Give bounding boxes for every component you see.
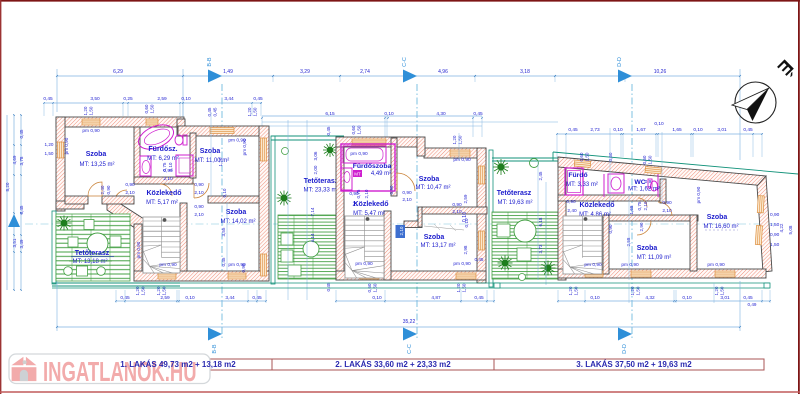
svg-text:4,87: 4,87 bbox=[431, 295, 441, 301]
page frame top border bbox=[0, 0, 800, 2]
svg-text:2,58: 2,58 bbox=[626, 237, 631, 246]
svg-text:Tetőterasz: Tetőterasz bbox=[497, 190, 532, 197]
svg-text:1,50: 1,50 bbox=[648, 155, 653, 164]
svg-text:pm 0,90: pm 0,90 bbox=[64, 137, 69, 154]
unit 1 toilet bbox=[183, 135, 187, 145]
svg-text:4,22: 4,22 bbox=[779, 223, 784, 232]
left elevation triangle bbox=[8, 214, 20, 227]
svg-text:MT: 6,29 m²: MT: 6,29 m² bbox=[147, 156, 179, 162]
svg-text:3,44: 3,44 bbox=[225, 295, 235, 301]
svg-text:4,96: 4,96 bbox=[438, 69, 448, 75]
svg-text:0,10: 0,10 bbox=[682, 295, 692, 301]
svg-text:Szoba: Szoba bbox=[200, 148, 221, 155]
svg-text:1,20: 1,20 bbox=[45, 142, 54, 147]
svg-text:3,51: 3,51 bbox=[12, 238, 17, 247]
svg-text:3,01: 3,01 bbox=[720, 295, 730, 301]
svg-text:1,20: 1,20 bbox=[630, 286, 635, 295]
svg-text:D-D: D-D bbox=[617, 57, 623, 67]
unit 3 staircase bbox=[563, 216, 602, 274]
svg-text:MT: 11,09 m²: MT: 11,09 m² bbox=[637, 255, 672, 261]
page frame left border bbox=[0, 0, 2, 394]
svg-text:0,90: 0,90 bbox=[349, 191, 359, 197]
svg-text:1,50: 1,50 bbox=[357, 125, 362, 134]
unit 2 right wall bbox=[477, 148, 486, 283]
unit 1 shower bbox=[176, 155, 193, 176]
unit 3 wc basin oval bbox=[608, 174, 624, 193]
watermark house icon bbox=[12, 357, 37, 381]
unit 3 terrace deck bbox=[492, 212, 558, 279]
unit 3 slanted top wall bbox=[558, 157, 766, 186]
unit 1 door arc bath bbox=[160, 184, 172, 196]
svg-text:1. LAKÁS 49,73 m2 + 13,18 m2: 1. LAKÁS 49,73 m2 + 13,18 m2 bbox=[120, 360, 236, 369]
bottom dimension row unit 1 bbox=[115, 290, 267, 303]
svg-text:3,44: 3,44 bbox=[224, 96, 234, 102]
unit 3 windows right wall bbox=[755, 196, 764, 245]
svg-text:2,10: 2,10 bbox=[402, 197, 412, 203]
svg-text:2,40: 2,40 bbox=[100, 185, 105, 194]
unit 3 wc room magenta bbox=[603, 174, 605, 197]
svg-text:4,14: 4,14 bbox=[310, 233, 315, 242]
unit 3 door arc bbox=[658, 202, 672, 216]
section marker C-C top bbox=[402, 57, 417, 338]
svg-text:0,10: 0,10 bbox=[590, 295, 600, 301]
left dimension chains bbox=[5, 114, 24, 291]
unit 1 washbasin bbox=[140, 156, 151, 176]
svg-text:0,90: 0,90 bbox=[241, 263, 246, 272]
unit 2 wall jog lower bbox=[404, 221, 422, 228]
svg-text:7,14: 7,14 bbox=[310, 207, 315, 216]
svg-text:0,90: 0,90 bbox=[194, 204, 204, 210]
svg-text:5,08: 5,08 bbox=[788, 225, 793, 234]
unit 1 window left wall bbox=[58, 142, 64, 158]
svg-text:2,59: 2,59 bbox=[463, 194, 468, 203]
svg-text:3,06: 3,06 bbox=[313, 151, 318, 160]
svg-text:pm 0,90: pm 0,90 bbox=[621, 262, 639, 268]
unit 3 interior wall above szoba bbox=[603, 215, 698, 221]
unit 3 interior wall under bath bbox=[558, 195, 666, 201]
svg-text:1,20: 1,20 bbox=[714, 286, 719, 295]
unit 1 terrace border bbox=[52, 211, 56, 284]
svg-text:MT: 13,18 m²: MT: 13,18 m² bbox=[72, 259, 107, 265]
unit 1 terrace plant bbox=[57, 216, 72, 231]
svg-text:pm 0,90: pm 0,90 bbox=[355, 261, 373, 267]
svg-text:2,73: 2,73 bbox=[590, 127, 600, 133]
unit 3 windows slanted wall bbox=[574, 160, 661, 174]
svg-text:2,59: 2,59 bbox=[157, 96, 167, 102]
svg-text:1,50: 1,50 bbox=[636, 286, 641, 295]
svg-text:4,32: 4,32 bbox=[645, 295, 655, 301]
svg-text:35,22: 35,22 bbox=[403, 319, 416, 325]
unit 2 window right lower bbox=[479, 231, 485, 250]
unit 1 interior dims bbox=[226, 203, 228, 271]
svg-text:1,50: 1,50 bbox=[162, 286, 167, 295]
svg-text:1,50: 1,50 bbox=[458, 135, 463, 144]
svg-text:0,90: 0,90 bbox=[566, 199, 576, 205]
svg-text:0,45: 0,45 bbox=[326, 126, 331, 135]
bottom garden double line bbox=[52, 282, 770, 284]
right dimension chain bbox=[766, 204, 793, 259]
svg-text:4,30: 4,30 bbox=[436, 111, 446, 117]
svg-text:2,00: 2,00 bbox=[313, 165, 318, 174]
svg-text:0,60: 0,60 bbox=[351, 125, 356, 134]
unit 1 window right wall lower bbox=[261, 254, 267, 276]
svg-text:Szoba: Szoba bbox=[419, 176, 440, 183]
svg-text:0,45: 0,45 bbox=[475, 257, 484, 262]
unit 1 window bottom 1 bbox=[158, 273, 176, 279]
svg-text:0,90: 0,90 bbox=[106, 185, 111, 194]
svg-text:Tetőterasz: Tetőterasz bbox=[75, 250, 110, 257]
svg-text:0,49: 0,49 bbox=[748, 302, 757, 307]
svg-text:3,55: 3,55 bbox=[221, 227, 226, 236]
unit 1 stair-side wall bbox=[134, 224, 142, 281]
svg-text:2,10: 2,10 bbox=[662, 208, 672, 214]
svg-text:3,78: 3,78 bbox=[19, 156, 24, 165]
svg-text:pm 0,90: pm 0,90 bbox=[159, 262, 177, 268]
svg-text:1,49: 1,49 bbox=[223, 69, 233, 75]
svg-text:Fürdőszoba: Fürdőszoba bbox=[353, 163, 392, 170]
unit 1 angled wall bbox=[107, 201, 144, 228]
svg-text:Szoba: Szoba bbox=[637, 245, 658, 252]
unit 1 bathtub bbox=[135, 120, 177, 154]
unit 2 door arc bbox=[397, 173, 415, 191]
svg-text:0,75: 0,75 bbox=[637, 201, 642, 210]
svg-text:C-C: C-C bbox=[407, 344, 413, 354]
garden fence line along slanted wall bbox=[553, 152, 798, 174]
unit 1 terrace deck bbox=[56, 214, 130, 281]
svg-text:0,90: 0,90 bbox=[194, 182, 204, 188]
svg-text:2,40: 2,40 bbox=[567, 208, 577, 214]
svg-text:6,18: 6,18 bbox=[538, 217, 543, 226]
unit 1 right wall bbox=[259, 126, 269, 281]
unit 1 bathroom bottom wall bbox=[134, 177, 193, 184]
unit 1 wall stub between stairs and room bbox=[180, 203, 187, 271]
svg-text:1,20: 1,20 bbox=[218, 157, 223, 166]
unit 2 window bottom 2 bbox=[456, 273, 476, 279]
svg-text:0,90: 0,90 bbox=[389, 185, 394, 194]
unit 2 wall stairs/room bbox=[384, 211, 391, 280]
svg-text:1,20: 1,20 bbox=[135, 286, 140, 295]
unit 1 door arc room1 bbox=[88, 182, 102, 196]
svg-text:0,45: 0,45 bbox=[743, 127, 753, 133]
unit 1 window top-mid bbox=[146, 119, 158, 125]
svg-text:Szoba: Szoba bbox=[86, 151, 107, 158]
svg-text:Tetőterasz: Tetőterasz bbox=[304, 178, 339, 185]
svg-text:pm 0,90: pm 0,90 bbox=[350, 151, 368, 157]
svg-text:3,49: 3,49 bbox=[19, 239, 24, 248]
svg-text:0,10: 0,10 bbox=[462, 212, 468, 222]
svg-text:Szoba: Szoba bbox=[226, 209, 247, 216]
svg-text:0,10: 0,10 bbox=[384, 111, 394, 117]
svg-text:1,50: 1,50 bbox=[150, 104, 155, 113]
svg-text:1,20: 1,20 bbox=[83, 106, 88, 115]
unit 2 terrace border top bbox=[271, 135, 344, 137]
svg-text:3,18: 3,18 bbox=[520, 69, 530, 75]
svg-text:MT: 10,47 m²: MT: 10,47 m² bbox=[415, 185, 450, 191]
svg-text:2,45: 2,45 bbox=[538, 171, 543, 180]
unit 3 bottom wall bbox=[558, 269, 766, 278]
svg-text:0,10: 0,10 bbox=[654, 121, 664, 127]
svg-text:0,90: 0,90 bbox=[770, 212, 780, 218]
compass north arrow bbox=[732, 82, 776, 123]
svg-text:pm 0,90: pm 0,90 bbox=[82, 128, 100, 134]
unit 2 washbasin bbox=[341, 168, 352, 190]
unit 2 terrace plants bbox=[323, 143, 337, 157]
svg-text:0,45: 0,45 bbox=[474, 295, 484, 301]
dimension row above unit 2 bbox=[261, 111, 558, 137]
overall bottom dimension bbox=[56, 281, 741, 331]
svg-text:Közlekedő: Közlekedő bbox=[579, 202, 614, 209]
svg-text:0,90: 0,90 bbox=[402, 190, 412, 196]
unit 1 outer wall top-right bbox=[177, 119, 185, 136]
svg-text:0,45: 0,45 bbox=[568, 127, 578, 133]
unit 2 bottom wall bbox=[336, 271, 486, 280]
svg-text:2,10: 2,10 bbox=[452, 209, 462, 215]
section marker B-B top bbox=[207, 57, 222, 338]
svg-text:1,20: 1,20 bbox=[156, 286, 161, 295]
svg-text:0,60: 0,60 bbox=[608, 152, 613, 161]
svg-text:D-D: D-D bbox=[622, 344, 628, 354]
title bar bbox=[106, 359, 764, 370]
svg-text:pm 0,90: pm 0,90 bbox=[584, 262, 602, 268]
svg-text:3,73: 3,73 bbox=[538, 244, 543, 253]
svg-text:2,10: 2,10 bbox=[163, 176, 173, 182]
unit 2 window right upper bbox=[479, 166, 485, 184]
unit 1 window bottom 2 bbox=[228, 273, 246, 279]
unit 1 top wall step bbox=[178, 126, 265, 136]
svg-text:1,50: 1,50 bbox=[45, 151, 54, 156]
unit 2 terrace deck bbox=[278, 215, 336, 279]
unit 2 terrace furniture bbox=[281, 233, 293, 245]
svg-text:3,01: 3,01 bbox=[717, 127, 727, 133]
svg-text:0,45: 0,45 bbox=[743, 295, 753, 301]
svg-text:0,25: 0,25 bbox=[123, 96, 133, 102]
unit 1 window top-right bbox=[210, 128, 234, 134]
section marker D-D top bbox=[617, 57, 632, 338]
svg-text:1,68: 1,68 bbox=[629, 205, 634, 214]
svg-text:pm 0,90: pm 0,90 bbox=[136, 241, 141, 258]
svg-text:6,15: 6,15 bbox=[325, 111, 335, 117]
svg-text:B-B: B-B bbox=[212, 344, 218, 354]
unit 2 wall between szoba rooms bbox=[421, 207, 487, 214]
unit 2 staircase bbox=[345, 216, 384, 278]
svg-text:MT: 1,62 m²: MT: 1,62 m² bbox=[628, 187, 660, 193]
svg-text:pm 0,90: pm 0,90 bbox=[453, 157, 471, 163]
svg-text:0,9: 0,9 bbox=[645, 179, 652, 185]
svg-text:2,10: 2,10 bbox=[194, 212, 204, 218]
svg-text:2,10: 2,10 bbox=[194, 190, 204, 196]
svg-text:MT: MT bbox=[354, 172, 361, 177]
svg-text:3,50: 3,50 bbox=[90, 96, 100, 102]
svg-text:0,10: 0,10 bbox=[222, 188, 227, 197]
unit 1 interior wall under room 1 bbox=[65, 196, 88, 204]
unit 2 top wall left bbox=[336, 137, 420, 147]
svg-text:pm 0,90: pm 0,90 bbox=[707, 262, 725, 268]
svg-text:2,98: 2,98 bbox=[463, 245, 468, 254]
svg-text:6,29: 6,29 bbox=[113, 69, 123, 75]
unit 2 window top-right bbox=[450, 150, 470, 156]
svg-text:1,50: 1,50 bbox=[585, 152, 590, 161]
svg-text:4,69: 4,69 bbox=[12, 155, 17, 164]
dimension row above unit 1 bbox=[43, 96, 263, 116]
watermark badge bbox=[9, 354, 210, 384]
unit 1 bottom wall bbox=[134, 271, 269, 281]
top main dimension chain bbox=[56, 69, 741, 160]
unit 3 washbasin bbox=[568, 171, 581, 193]
unit 1 interior wall between rooms bbox=[208, 196, 259, 203]
svg-text:C-C: C-C bbox=[402, 57, 408, 67]
svg-text:Fürdő: Fürdő bbox=[568, 172, 587, 179]
svg-text:pm 0,90: pm 0,90 bbox=[242, 138, 247, 155]
svg-text:2,10: 2,10 bbox=[643, 201, 648, 210]
svg-text:1,20: 1,20 bbox=[452, 135, 457, 144]
svg-text:Szoba: Szoba bbox=[424, 234, 445, 241]
unit 3 terrace plants bbox=[493, 159, 509, 175]
svg-text:0,45: 0,45 bbox=[253, 96, 263, 102]
svg-text:Közlekedő: Közlekedő bbox=[146, 190, 181, 197]
svg-text:2.: 2. bbox=[352, 202, 357, 208]
unit 3 terrace border top bbox=[492, 157, 558, 159]
svg-text:3,29: 3,29 bbox=[300, 69, 310, 75]
svg-text:4,49 m²: 4,49 m² bbox=[371, 171, 391, 177]
unit 2 terrace border left bbox=[271, 136, 275, 284]
unit 1 terrace table bbox=[87, 233, 108, 254]
page frame right border bbox=[798, 0, 800, 394]
dimension row above unit 3 bbox=[556, 121, 763, 157]
unit 2 bathroom walls magenta bbox=[341, 144, 395, 191]
svg-text:2,90: 2,90 bbox=[639, 222, 644, 231]
unit 2 wall bath/room bbox=[391, 138, 397, 196]
svg-text:Közlekedő: Közlekedő bbox=[353, 201, 388, 208]
unit 2 window top bbox=[352, 139, 386, 145]
page frame bottom border bbox=[0, 391, 800, 393]
svg-text:2,10: 2,10 bbox=[125, 190, 135, 196]
unit 1 window top-left bbox=[82, 119, 100, 125]
svg-text:MT: 19,63 m²: MT: 19,63 m² bbox=[497, 200, 532, 206]
section marker B-B bottom bbox=[208, 328, 222, 341]
svg-text:Szoba: Szoba bbox=[707, 214, 728, 221]
unit 1 door arc room2 bbox=[194, 183, 209, 198]
unit 3 wall stairs/room bbox=[603, 215, 609, 274]
svg-text:0,90: 0,90 bbox=[125, 182, 135, 188]
svg-text:0,45: 0,45 bbox=[326, 282, 331, 291]
svg-text:0,60: 0,60 bbox=[642, 155, 647, 164]
svg-text:2,10: 2,10 bbox=[399, 226, 404, 235]
unit 2 bathtub bbox=[343, 146, 386, 163]
svg-text:2. LAKÁS 33,60 m2 + 23,33 m2: 2. LAKÁS 33,60 m2 + 23,33 m2 bbox=[335, 360, 451, 369]
bottom dimension row unit 3 bbox=[557, 283, 771, 307]
svg-text:1,20: 1,20 bbox=[247, 107, 252, 116]
svg-text:0,10: 0,10 bbox=[372, 295, 382, 301]
section marker D-D bottom bbox=[618, 328, 632, 341]
svg-text:0,10: 0,10 bbox=[613, 127, 623, 133]
svg-text:0,90: 0,90 bbox=[452, 202, 462, 208]
unit 3 wall between szoba rooms bbox=[690, 215, 697, 271]
svg-text:2,74: 2,74 bbox=[360, 69, 370, 75]
unit 2 window bottom 1 bbox=[360, 273, 379, 279]
svg-text:0,45: 0,45 bbox=[43, 96, 53, 102]
svg-text:2,59: 2,59 bbox=[160, 295, 170, 301]
svg-text:MT: 14,02 m²: MT: 14,02 m² bbox=[220, 219, 255, 225]
svg-text:0,45: 0,45 bbox=[473, 111, 483, 117]
unit 1 window right wall upper bbox=[261, 138, 267, 161]
svg-text:B-B: B-B bbox=[207, 57, 213, 67]
unit 2 top wall jog bbox=[417, 137, 425, 156]
unit 2 top wall right bbox=[424, 148, 486, 158]
svg-text:0,45: 0,45 bbox=[207, 107, 212, 116]
svg-text:1,50: 1,50 bbox=[770, 242, 780, 248]
unit 3 wc toilet bbox=[648, 179, 652, 188]
unit 3 right wall bbox=[757, 176, 772, 272]
svg-text:MT: 23,33 m²: MT: 23,33 m² bbox=[303, 188, 338, 194]
svg-text:MT: 13,25 m²: MT: 13,25 m² bbox=[79, 162, 114, 168]
unit 3 terrace border left bbox=[489, 150, 493, 287]
svg-text:0,90: 0,90 bbox=[608, 224, 613, 233]
svg-text:1,50: 1,50 bbox=[89, 106, 94, 115]
svg-text:0,45: 0,45 bbox=[213, 107, 218, 116]
unit 3 windows bottom bbox=[585, 271, 603, 277]
svg-text:0,75: 0,75 bbox=[162, 162, 167, 171]
svg-text:0,45: 0,45 bbox=[221, 257, 226, 266]
svg-text:Fürdősz.: Fürdősz. bbox=[148, 146, 177, 153]
svg-text:2,10: 2,10 bbox=[364, 189, 369, 198]
svg-text:0,10: 0,10 bbox=[693, 127, 703, 133]
bottom dimension row unit 2 bbox=[335, 290, 495, 303]
svg-text:8,20: 8,20 bbox=[5, 182, 10, 191]
svg-text:10,26: 10,26 bbox=[654, 69, 667, 75]
svg-text:1,20: 1,20 bbox=[568, 286, 573, 295]
svg-text:3. LAKÁS 37,50 m2 + 19,63 m2: 3. LAKÁS 37,50 m2 + 19,63 m2 bbox=[576, 360, 692, 369]
svg-text:MT: 11,00 m²: MT: 11,00 m² bbox=[195, 158, 230, 164]
svg-text:MT: 3,33 m²: MT: 3,33 m² bbox=[566, 182, 598, 188]
unit 2 left wall bbox=[336, 137, 344, 280]
svg-text:0,60: 0,60 bbox=[144, 104, 149, 113]
unit 1 terrace-side wall bbox=[56, 201, 84, 209]
unit 3 wall wc/szoba bbox=[660, 179, 666, 203]
unit 3 left wall bbox=[558, 162, 566, 280]
unit 1 bathroom right wall bbox=[190, 133, 196, 178]
svg-text:0,10: 0,10 bbox=[185, 295, 195, 301]
svg-text:1,50: 1,50 bbox=[253, 107, 258, 116]
svg-text:MT: 13,17 m²: MT: 13,17 m² bbox=[420, 243, 455, 249]
svg-text:1,65: 1,65 bbox=[672, 127, 682, 133]
section marker C-C bottom bbox=[403, 328, 417, 341]
svg-text:2,10: 2,10 bbox=[168, 162, 173, 171]
svg-text:pm 0,90: pm 0,90 bbox=[453, 261, 471, 267]
unit 3 terrace table bbox=[514, 220, 536, 242]
unit 1 terrace chairs bbox=[84, 220, 94, 230]
unit 1 outer wall top-left bbox=[56, 117, 184, 127]
svg-text:1,50: 1,50 bbox=[141, 286, 146, 295]
svg-text:MT: 5,17 m²: MT: 5,17 m² bbox=[146, 200, 178, 206]
svg-text:1,50: 1,50 bbox=[574, 286, 579, 295]
svg-text:0,10: 0,10 bbox=[181, 96, 191, 102]
svg-text:pm 0,90: pm 0,90 bbox=[696, 186, 701, 203]
svg-text:1,50: 1,50 bbox=[720, 286, 725, 295]
unit 3 bathroom Furdo magenta bbox=[565, 168, 583, 195]
svg-text:0,60: 0,60 bbox=[579, 152, 584, 161]
svg-text:0,45: 0,45 bbox=[19, 205, 24, 214]
watermark text bbox=[43, 357, 197, 388]
svg-text:1,67: 1,67 bbox=[636, 127, 646, 133]
unit 1 staircase bbox=[143, 217, 180, 273]
unit 1 left wall bbox=[56, 117, 65, 211]
unit 1 bathroom left wall bbox=[134, 127, 140, 184]
svg-text:0,90: 0,90 bbox=[662, 200, 672, 206]
svg-text:0,45: 0,45 bbox=[19, 129, 24, 138]
horizontal reference dash-dot line bbox=[25, 223, 775, 225]
svg-text:MT: 16,60 m²: MT: 16,60 m² bbox=[703, 224, 738, 230]
